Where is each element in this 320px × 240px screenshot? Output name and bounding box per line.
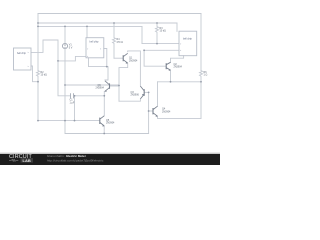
wire right vertical from W1 <box>200 14 202 71</box>
wire B1 pin1 jog to node <box>31 40 58 61</box>
wire B1 pin2 drop <box>31 66 38 82</box>
transistor Q2 <box>166 62 170 70</box>
wire bottom right to Q4 emitter <box>158 116 202 118</box>
junction (119,85.5) <box>118 85 120 87</box>
wire W2 drop into box U3 <box>176 23 178 31</box>
resistor R6 <box>200 71 203 79</box>
wire net P from W3 to V1 <box>64 26 66 43</box>
svg-text:LAB: LAB <box>23 158 31 163</box>
junction (106.8,66.6) <box>106 66 108 68</box>
junction (65,26.4) <box>64 26 66 28</box>
wire U2 right pin <box>104 49 107 67</box>
wire B3 lower-left pin <box>144 49 179 51</box>
junction (38,120.6) <box>37 120 39 122</box>
wire Q1 emitter down <box>119 64 128 102</box>
box U2 bell chip <box>86 38 104 58</box>
wire rail W2 <box>38 22 177 24</box>
svg-text:2N3904: 2N3904 <box>129 59 138 62</box>
footer bar <box>0 154 220 165</box>
svg-text:1 Ω: 1 Ω <box>204 74 208 77</box>
wire below R2 <box>37 76 39 120</box>
wire Q1 collector to Q3 collector <box>128 51 141 86</box>
junction (74.5,120.6) <box>74 120 76 122</box>
wire W3 stub into box U2 top <box>86 26 88 37</box>
transistor Q1 <box>123 53 128 63</box>
svg-text:http://circuitlab.com/c/padzt7: http://circuitlab.com/c/padzt7j5pd9l/ele… <box>47 159 104 163</box>
wire C1 right to Q6 emitter column <box>74 95 105 97</box>
box U3 bell chip <box>179 31 197 56</box>
svg-text:2N3904: 2N3904 <box>162 110 171 113</box>
transistor Q6 (mirrored NPN) <box>105 81 110 92</box>
svg-text:10 kΩ: 10 kΩ <box>41 74 48 77</box>
svg-text:2N3906: 2N3906 <box>131 94 140 97</box>
svg-text:470 Ω: 470 Ω <box>117 41 124 44</box>
transistor Q5 <box>100 116 105 127</box>
junction (38,23) <box>37 22 39 24</box>
svg-text:2N3904: 2N3904 <box>96 87 105 90</box>
junction (65,85) <box>64 84 66 86</box>
junction (65,120.6) <box>64 120 66 122</box>
wire Q2 base drop <box>144 50 166 66</box>
junction (38,26.4) <box>37 26 39 28</box>
capacitor C1 <box>70 94 73 98</box>
wire below R6 to bottom <box>200 78 202 118</box>
wire Q2 collector up to U3 bottom pin <box>171 56 184 63</box>
wire Q3 emitter across <box>119 99 140 101</box>
wire net P below V1 down and right to Q4 base column <box>65 49 149 134</box>
wire U2 bottom pin to Q6 collector <box>89 58 109 80</box>
wire Q6 emitter down to Q5 collector <box>103 91 105 115</box>
junction (74.5,95.8) <box>74 95 76 97</box>
wire Q6 base <box>110 85 120 87</box>
junction (114,23) <box>113 22 115 24</box>
junction (148.6,92.4) <box>148 92 150 94</box>
wire rail W4 to box U3 <box>142 43 179 45</box>
wire Q3 base to column <box>144 91 148 93</box>
junction (104.3,95.8) <box>103 95 105 97</box>
junction (157,43.6) <box>156 43 158 45</box>
wire Q4 collector column <box>157 82 159 106</box>
svg-text:bell chip: bell chip <box>17 52 26 55</box>
voltage source V1 <box>62 43 67 48</box>
svg-text:10 kΩ: 10 kΩ <box>160 30 167 33</box>
svg-text:brian.mhahn : Electric Meter: brian.mhahn : Electric Meter <box>47 154 87 158</box>
svg-text:2N3904: 2N3904 <box>106 122 115 125</box>
wire emitter rail y81.8 <box>158 81 202 83</box>
wire Q4 base stub <box>149 110 153 112</box>
wire Q5 emitter down <box>103 126 105 133</box>
svg-text:bell chip: bell chip <box>183 38 192 41</box>
svg-text:2N3904: 2N3904 <box>174 66 183 69</box>
box U1 bell chip <box>14 48 32 70</box>
wire U2 left pin to C1 <box>58 56 86 95</box>
footer logo LAB <box>21 158 34 163</box>
wire left vertical drop <box>37 14 39 71</box>
transistor Q4 <box>153 106 158 116</box>
footer shadow <box>0 152 220 154</box>
junction (38,81.7) <box>37 81 39 83</box>
footer logo waveform <box>9 159 18 162</box>
junction (148.6,111) <box>148 110 150 112</box>
wire top rail W1 <box>38 13 201 15</box>
junction (87,26.4) <box>86 26 88 28</box>
junction (144.1,50.3) <box>143 49 145 51</box>
junction dots <box>37 22 202 134</box>
junction (170.5,81.8) <box>170 81 172 83</box>
resistor R2 <box>37 71 40 77</box>
wire C1 drop to Q5 base line <box>74 96 76 121</box>
junction (201,81.8) <box>200 81 202 83</box>
svg-text:5 V: 5 V <box>69 46 73 49</box>
wire node H_d from P to Q6 base column <box>65 84 119 86</box>
junction (104.2,133.5) <box>103 133 105 135</box>
wire Q2 emitter down <box>170 70 172 82</box>
wire R4 to Q1 base <box>114 57 123 59</box>
junction (157,23) <box>156 22 158 24</box>
wire Q5 base line <box>38 120 100 122</box>
resistor R3 <box>156 23 159 44</box>
component labels <box>41 27 208 125</box>
svg-text:1 μF: 1 μF <box>70 101 75 104</box>
wire rail W3 <box>38 25 142 27</box>
transistor Q3 (PNP, mirrored) <box>140 86 144 99</box>
wire W3 corner down <box>141 26 143 43</box>
junction (58,60.9) <box>57 60 59 62</box>
resistor R4 <box>113 23 116 58</box>
wire Q3/Q4 base column <box>148 92 150 133</box>
svg-text:bell chip: bell chip <box>90 41 99 44</box>
